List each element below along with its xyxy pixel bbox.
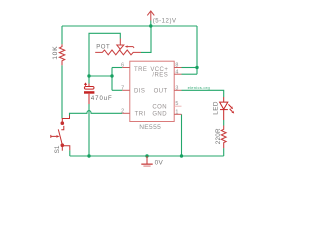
svg-text:GND: GND [152,111,167,117]
svg-text:DIS: DIS [134,89,145,95]
svg-text:3: 3 [175,85,178,91]
svg-text:6: 6 [121,63,124,69]
svg-text:7: 7 [121,85,124,91]
svg-text:2: 2 [121,108,124,114]
svg-text:1: 1 [175,109,178,115]
svg-text:TRE: TRE [134,67,147,73]
svg-text:/RES: /RES [152,73,168,79]
svg-text:5: 5 [175,101,178,107]
svg-text:220R: 220R [215,128,222,144]
svg-text:CON: CON [152,105,167,111]
svg-text:POT: POT [96,44,110,50]
svg-text:(5-12)V: (5-12)V [153,18,177,24]
svg-text:470uF: 470uF [91,96,113,102]
svg-text:10K: 10K [52,46,59,60]
svg-text:elenics.org: elenics.org [188,85,210,90]
svg-text:NE555: NE555 [139,124,161,131]
svg-text:LED: LED [212,101,219,115]
svg-text:4: 4 [175,69,178,75]
svg-text:OUT: OUT [154,89,168,95]
svg-text:S1: S1 [54,145,61,153]
svg-text:TRI: TRI [135,111,146,117]
svg-text:0V: 0V [155,160,164,167]
svg-text:8: 8 [175,63,178,69]
